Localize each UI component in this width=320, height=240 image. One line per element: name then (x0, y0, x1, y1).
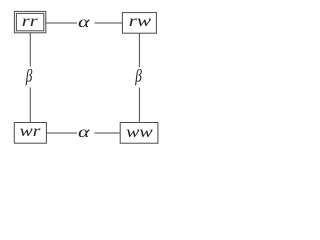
wire alpha to ww (bottom right segment) (95, 132, 121, 134)
svg-text:ww: ww (126, 124, 153, 141)
node rr (double box) (14, 11, 45, 32)
svg-text:rr: rr (22, 13, 39, 30)
node ww (120, 123, 158, 144)
svg-text:rw: rw (129, 13, 152, 30)
svg-text:α: α (78, 14, 90, 31)
node rw (122, 13, 156, 34)
svg-text:α: α (78, 124, 90, 141)
wire alpha to rw (top right segment) (95, 22, 123, 24)
wire rw to beta (right upper segment) (138, 33, 140, 67)
svg-text:β: β (25, 66, 32, 86)
wire beta to wr (left lower segment) (29, 88, 31, 123)
wire rr to beta (left upper segment) (29, 33, 31, 67)
svg-text:wr: wr (20, 123, 42, 140)
node wr (14, 123, 46, 144)
svg-text:β: β (135, 66, 142, 86)
wire rr to alpha (top left segment) (46, 22, 77, 24)
wire wr to alpha (bottom left segment) (46, 132, 77, 134)
wire beta to ww (right lower segment) (138, 88, 140, 123)
